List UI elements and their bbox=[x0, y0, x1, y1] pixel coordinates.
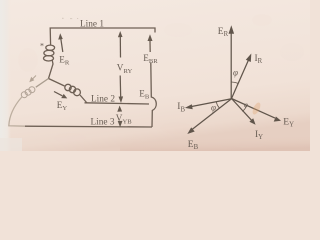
svg-text:Line 2: Line 2 bbox=[91, 94, 115, 104]
svg-text:Line 3: Line 3 bbox=[91, 118, 115, 128]
svg-text:φ: φ bbox=[233, 68, 238, 78]
svg-text:*: * bbox=[40, 41, 44, 50]
svg-text:Line 1: Line 1 bbox=[80, 19, 104, 29]
svg-text:φ: φ bbox=[244, 100, 248, 109]
svg-text:φ: φ bbox=[211, 102, 216, 112]
